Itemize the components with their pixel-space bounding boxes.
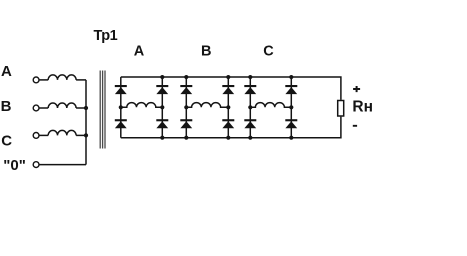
node branch 6 / negative rail [289, 136, 293, 140]
diode VD11 top of branch 6 [285, 85, 297, 94]
wire winding C to neutral bus [76, 134, 86, 136]
node branch 2 midpoint [160, 105, 164, 109]
node neutral bus / winding C [84, 133, 88, 137]
diode VD2 bottom of branch 1 [115, 119, 127, 128]
diode VD10 bottom of branch 5 [244, 119, 256, 128]
wire negative rail (-) [121, 117, 341, 138]
terminal C [33, 133, 39, 139]
svg-text:"0": "0" [3, 157, 26, 174]
svg-text:A: A [1, 63, 12, 80]
wire bridge branch 5 [249, 77, 251, 138]
node branch 6 midpoint [289, 105, 293, 109]
wire winding B to neutral bus [76, 107, 86, 109]
secondary winding B [186, 103, 228, 108]
wire bridge branch 6 [290, 77, 292, 138]
diode VD5 top of branch 3 [180, 85, 192, 94]
node branch 5 / positive rail [248, 75, 252, 79]
transformer core [100, 71, 105, 149]
node neutral bus / winding B [84, 106, 88, 110]
wire neutral bus vertical [85, 80, 87, 165]
node branch 3 midpoint [184, 105, 188, 109]
wire positive rail (+) [121, 77, 341, 100]
svg-text:Тр1: Тр1 [94, 28, 118, 44]
secondary winding A [121, 103, 163, 108]
diode VD7 top of branch 4 [222, 85, 234, 94]
node branch 4 midpoint [226, 105, 230, 109]
secondary winding C [250, 103, 291, 108]
label + [353, 86, 360, 92]
diode VD12 bottom of branch 6 [285, 119, 297, 128]
svg-text:C: C [1, 132, 12, 149]
svg-text:B: B [1, 98, 12, 115]
terminal A [33, 77, 39, 83]
diode VD9 top of branch 5 [244, 85, 256, 94]
wire neutral row 0 [39, 164, 86, 166]
primary winding A [48, 75, 76, 80]
wire bridge branch 2 [161, 77, 163, 138]
node branch 3 / negative rail [184, 136, 188, 140]
node branch 2 / negative rail [160, 136, 164, 140]
label minus [353, 125, 357, 127]
svg-text:Rн: Rн [352, 98, 373, 115]
wire bridge branch 3 [185, 77, 187, 138]
node branch 5 / negative rail [248, 136, 252, 140]
diode VD4 bottom of branch 2 [156, 119, 168, 128]
primary winding C [48, 130, 76, 135]
svg-text:B: B [201, 44, 211, 60]
node branch 3 / positive rail [184, 75, 188, 79]
diode VD1 top of branch 1 [115, 85, 127, 94]
resistor Rн load [338, 101, 344, 117]
diode VD3 top of branch 2 [156, 85, 168, 94]
node branch 4 / negative rail [226, 136, 230, 140]
node branch 1 midpoint [119, 105, 123, 109]
node branch 2 / positive rail [160, 75, 164, 79]
wire winding A to neutral bus [76, 79, 86, 81]
primary winding B [48, 103, 76, 108]
wire terminal A to winding [39, 79, 48, 81]
wire terminal C to winding [39, 134, 48, 136]
node branch 6 / positive rail [289, 75, 293, 79]
svg-text:C: C [263, 44, 274, 60]
diode VD8 bottom of branch 4 [222, 119, 234, 128]
svg-text:A: A [134, 44, 145, 60]
node branch 4 / positive rail [226, 75, 230, 79]
wire bridge branch 4 [227, 77, 229, 138]
node branch 5 midpoint [248, 105, 252, 109]
wire terminal B to winding [39, 107, 48, 109]
wire bridge branch 1 [120, 77, 122, 138]
diode VD6 bottom of branch 3 [180, 119, 192, 128]
terminal B [33, 105, 39, 111]
terminal 0 [33, 162, 39, 168]
